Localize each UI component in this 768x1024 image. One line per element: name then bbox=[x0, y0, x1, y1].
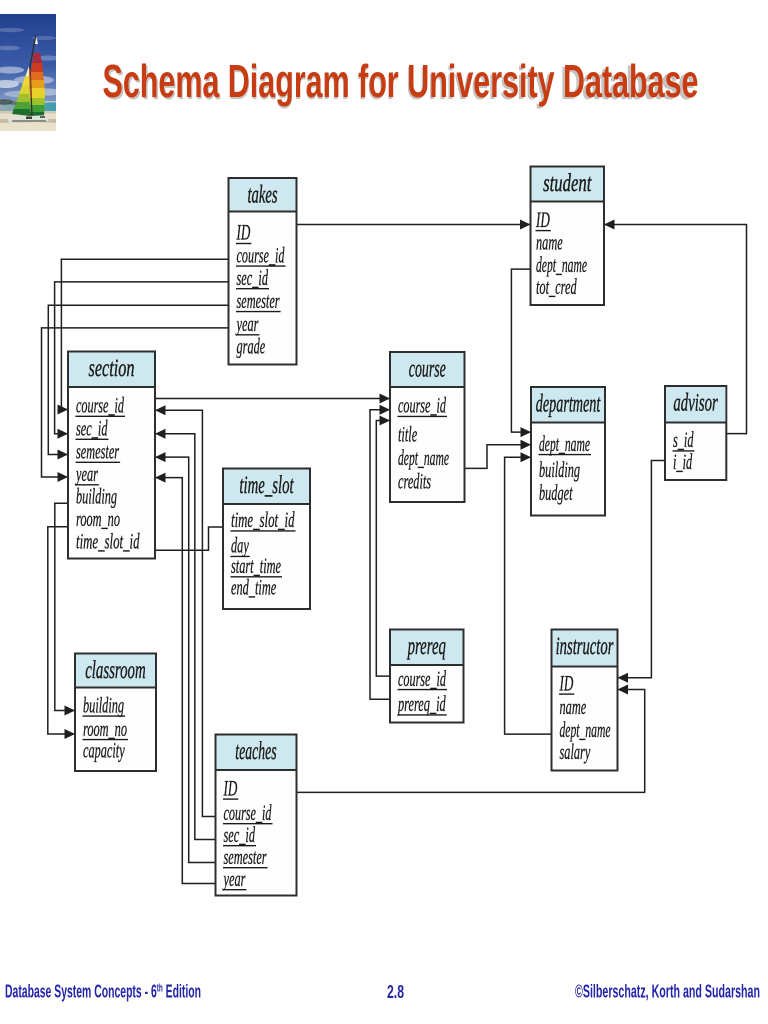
wire prereq.course_id to course bbox=[376, 416, 390, 677]
svg-text:course_id: course_id bbox=[76, 393, 125, 418]
svg-text:ID: ID bbox=[236, 220, 250, 245]
svg-text:section: section bbox=[89, 355, 135, 382]
table course bbox=[390, 352, 465, 502]
svg-text:prereq: prereq bbox=[406, 633, 445, 660]
svg-text:title: title bbox=[398, 422, 417, 447]
svg-text:grade: grade bbox=[237, 334, 266, 359]
wire course.dept_name to department bbox=[465, 440, 532, 469]
wire takes.sec_id to section bbox=[55, 282, 229, 439]
svg-text:year: year bbox=[235, 311, 258, 336]
wire section.building to classroom bbox=[55, 503, 75, 715]
svg-text:tot_cred: tot_cred bbox=[536, 274, 577, 299]
svg-text:budget: budget bbox=[539, 480, 573, 505]
table time_slot bbox=[223, 469, 310, 610]
svg-text:end_time: end_time bbox=[231, 575, 276, 600]
svg-text:salary: salary bbox=[560, 739, 591, 764]
svg-text:building: building bbox=[76, 484, 117, 509]
table department bbox=[531, 387, 605, 516]
svg-text:time_slot_id: time_slot_id bbox=[76, 529, 140, 554]
svg-text:sec_id: sec_id bbox=[76, 416, 108, 441]
table classroom bbox=[75, 654, 156, 772]
svg-text:building: building bbox=[83, 692, 124, 717]
svg-text:time_slot_id: time_slot_id bbox=[231, 507, 295, 532]
wire prereq.prereq_id to course bbox=[370, 405, 390, 700]
svg-text:course_id: course_id bbox=[398, 666, 447, 691]
svg-text:i_id: i_id bbox=[673, 449, 693, 474]
svg-text:name: name bbox=[560, 694, 587, 719]
svg-text:instructor: instructor bbox=[556, 633, 614, 660]
svg-text:course_id: course_id bbox=[237, 242, 286, 267]
wire teaches.sec_id to section bbox=[155, 429, 216, 840]
table takes bbox=[229, 178, 297, 365]
svg-text:takes: takes bbox=[248, 182, 278, 209]
svg-text:prereq_id: prereq_id bbox=[397, 691, 446, 716]
wire takes.ID to student.ID bbox=[297, 220, 531, 230]
wire teaches.year to section bbox=[155, 473, 216, 884]
svg-text:time_slot: time_slot bbox=[239, 472, 294, 499]
wire instructor.dept_name to department bbox=[505, 452, 552, 734]
wire advisor.i_id to instructor bbox=[618, 461, 666, 683]
table prereq bbox=[390, 630, 464, 723]
svg-text:year: year bbox=[222, 866, 245, 891]
svg-text:credits: credits bbox=[398, 468, 431, 493]
wire takes.year to section bbox=[42, 328, 229, 482]
svg-text:dept_name: dept_name bbox=[539, 431, 590, 456]
svg-text:ID: ID bbox=[535, 207, 549, 232]
beach sailboat photo bbox=[0, 14, 56, 131]
wire teaches.course_id to section bbox=[155, 405, 216, 816]
wire teaches.ID to instructor bbox=[297, 685, 645, 793]
svg-text:Database System Concepts - 6th: Database System Concepts - 6th Edition bbox=[5, 982, 201, 1002]
svg-text:semester: semester bbox=[237, 288, 280, 313]
svg-text:student: student bbox=[543, 170, 592, 197]
svg-text:2.8: 2.8 bbox=[387, 982, 404, 1002]
svg-text:dept_name: dept_name bbox=[398, 445, 449, 470]
wire takes.semester to section bbox=[48, 305, 228, 459]
table instructor bbox=[552, 630, 618, 771]
slide title bbox=[0, 0, 768, 130]
svg-text:capacity: capacity bbox=[83, 737, 125, 762]
svg-text:building: building bbox=[539, 457, 580, 482]
svg-text:department: department bbox=[536, 391, 601, 418]
wire student.dept_name to department bbox=[511, 269, 531, 437]
svg-text:room_no: room_no bbox=[76, 506, 120, 531]
wire section.time_slot_id to time_slot bbox=[155, 527, 223, 550]
svg-text:teaches: teaches bbox=[235, 738, 276, 765]
svg-text:year: year bbox=[75, 461, 98, 486]
table teaches bbox=[216, 735, 297, 896]
wire section.room_no to classroom bbox=[48, 527, 75, 739]
table advisor bbox=[665, 386, 726, 480]
svg-text:course_id: course_id bbox=[398, 393, 447, 418]
svg-text:advisor: advisor bbox=[673, 390, 718, 417]
footer bbox=[0, 964, 768, 1024]
table section bbox=[68, 352, 155, 559]
wire teaches.semester to section bbox=[155, 452, 216, 862]
table student bbox=[531, 167, 605, 306]
svg-text:ID: ID bbox=[223, 775, 237, 800]
svg-text:name: name bbox=[536, 229, 563, 254]
svg-text:semester: semester bbox=[76, 439, 119, 464]
wire section.course_id to course bbox=[155, 394, 390, 404]
wire takes.course_id to section bbox=[58, 259, 229, 414]
svg-text:course: course bbox=[409, 356, 446, 383]
svg-text:©Silberschatz, Korth and Sudar: ©Silberschatz, Korth and Sudarshan bbox=[575, 982, 760, 1002]
svg-text:classroom: classroom bbox=[85, 657, 146, 684]
svg-text:ID: ID bbox=[559, 670, 573, 695]
wire advisor.s_id to student.ID bbox=[604, 220, 747, 434]
svg-text:sec_id: sec_id bbox=[237, 265, 269, 290]
